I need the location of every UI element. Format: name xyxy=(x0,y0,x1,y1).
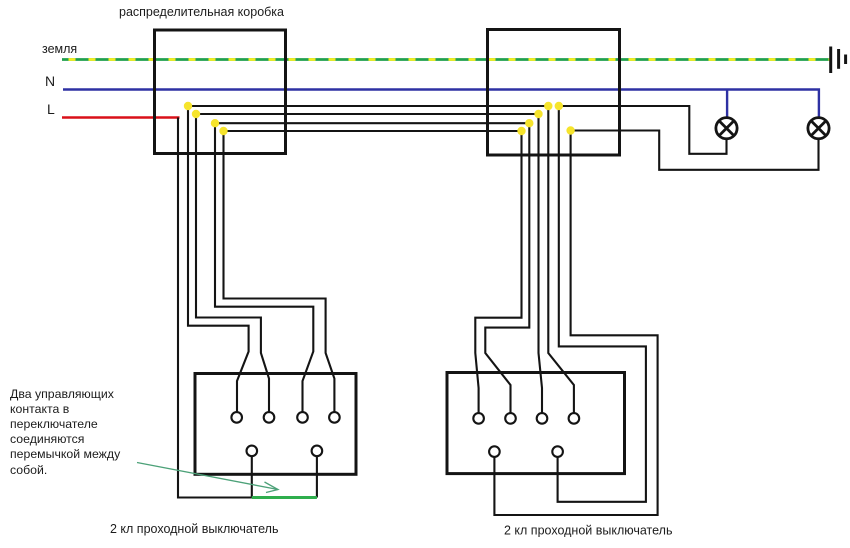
wire box1 dot2 to switch1 terminal 2 xyxy=(196,114,269,412)
svg-text:собой.: собой. xyxy=(10,463,47,477)
switch 2 terminal 2 xyxy=(505,413,516,424)
wire switch1 terminal6 drop xyxy=(316,456,318,497)
node dot box2-1 xyxy=(517,127,525,135)
svg-text:земля: земля xyxy=(42,42,77,56)
wire box1 dot4 to box2 dot1 xyxy=(224,130,522,132)
svg-text:перемычкой между: перемычкой между xyxy=(10,447,121,461)
wire box1 dot1 to box2 dot4 xyxy=(188,105,548,107)
svg-text:контакта в: контакта в xyxy=(10,402,69,416)
wire box2 dot3 to switch2 terminal 3 xyxy=(539,114,543,413)
ground wire green base xyxy=(62,58,830,61)
lamp 1 xyxy=(716,118,737,139)
node dot box1-3 xyxy=(211,119,219,127)
svg-text:2 кл проходной выключатель: 2 кл проходной выключатель xyxy=(504,524,672,538)
annotation text block xyxy=(10,387,121,477)
switch 1 bottom terminal 6 xyxy=(312,446,323,457)
switch 1 bottom terminal 5 xyxy=(247,446,258,457)
wire box2 dot5 to lamp 1 xyxy=(559,106,727,154)
switch 2 box xyxy=(447,373,625,474)
wire box2 dot2 to switch2 terminal 2 xyxy=(485,123,529,413)
green annotation arrow xyxy=(137,463,278,493)
phase wire L (red) xyxy=(62,116,180,118)
wire box1 dot1 to switch1 terminal 1 xyxy=(188,106,249,412)
switch 1 terminal 2 xyxy=(264,412,275,423)
switch 2 bottom terminal 1 xyxy=(489,446,500,457)
green jumper between switch1 bottom terminals xyxy=(252,496,317,499)
wire box1 dot3 to switch1 terminal 3 xyxy=(215,123,313,412)
switch 1 box xyxy=(195,374,356,475)
svg-text:распределительная коробка: распределительная коробка xyxy=(119,5,284,19)
switch 1 terminal 4 xyxy=(329,412,340,423)
wire box2 dot1 to switch2 terminal 1 xyxy=(475,131,521,413)
svg-text:Два управляющих: Два управляющих xyxy=(10,387,115,401)
node dot box2-2 xyxy=(525,119,533,127)
neutral branch to lamp 1 xyxy=(726,90,728,119)
wire box2 dot4 to switch2 terminal 4 xyxy=(548,106,574,413)
neutral wire N xyxy=(63,90,819,119)
junction box 2 xyxy=(488,30,620,156)
node dot box2-3 xyxy=(534,110,542,118)
switch 2 terminal 4 xyxy=(569,413,580,424)
node dot box1-1 xyxy=(184,102,192,110)
node dot box2-6 xyxy=(566,126,574,134)
svg-text:L: L xyxy=(47,101,55,117)
svg-text:соединяются: соединяются xyxy=(10,432,84,446)
wire box2 dot6 to lamp 2 xyxy=(571,131,819,170)
wire box2 dot5 to switch2 bottom terminal 2 xyxy=(558,106,646,502)
wire box2 dot6 to switch2 bottom terminal 1 xyxy=(494,131,657,516)
svg-text:переключателе: переключателе xyxy=(10,417,98,431)
lamp 2 xyxy=(808,118,829,139)
node dot box2-4 xyxy=(544,102,552,110)
ground wire yellow dashes xyxy=(62,58,830,61)
wire box1 dot3 to box2 dot2 xyxy=(215,122,529,124)
junction box 1 xyxy=(155,30,286,154)
switch 2 terminal 3 xyxy=(537,413,548,424)
node dot box1-2 xyxy=(192,110,200,118)
switch 1 terminal 1 xyxy=(231,412,242,423)
switch 1 terminal 3 xyxy=(297,412,308,423)
switch 2 bottom terminal 2 xyxy=(552,446,563,457)
ground symbol xyxy=(831,47,846,74)
switch 2 terminal 1 xyxy=(473,413,484,424)
wire switch1 terminal5 drop xyxy=(251,456,253,497)
wire box1 dot2 to box2 dot3 xyxy=(196,113,539,115)
node dot box2-5 xyxy=(555,102,563,110)
svg-text:N: N xyxy=(45,73,55,89)
node dot box1-4 xyxy=(219,127,227,135)
svg-text:2 кл проходной выключатель: 2 кл проходной выключатель xyxy=(110,522,278,536)
wire box1 dot4 to switch1 terminal 4 xyxy=(224,131,335,412)
wire L drop to switch 1 bottom xyxy=(178,118,252,498)
